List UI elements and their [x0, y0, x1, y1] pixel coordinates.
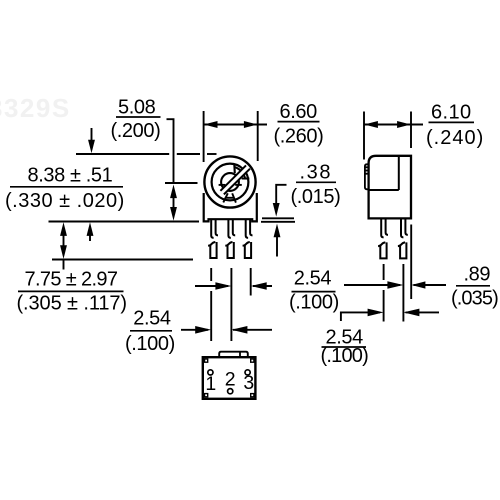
front view: top reference dash [207, 153, 217, 155]
wire/pin upper-left edge [228, 220, 230, 238]
standoff upper line (body bottom ext) [262, 217, 294, 219]
pin break slant [243, 242, 250, 246]
wire/pin upper-left edge [381, 220, 383, 238]
ext line pin3 center (front) [250, 268, 252, 296]
5.08 dim: center-height tick line [165, 182, 198, 184]
ext line side pin1 center lower [383, 290, 385, 322]
svg-text:(.200): (.200) [111, 120, 161, 142]
front view: rotor tick right [235, 184, 242, 186]
front view: slot line 2 [224, 169, 250, 195]
front view: trimmer body outline with feet [204, 193, 257, 221]
pin break slant [208, 242, 215, 246]
dim 7.75: shaft stub below pin-tip line [63, 260, 65, 270]
side view: adjuster tab [365, 164, 369, 189]
dim .38: up arrow below seating [276, 234, 278, 257]
dim 6.10: left extension line [363, 112, 365, 160]
pin lower segment [400, 242, 406, 258]
side view: inner horizontal line [370, 189, 399, 191]
wire/pin upper-left edge [246, 220, 248, 238]
dim 8.38: up arrow at seating line [89, 233, 91, 241]
side view: body outline (rounded top-left) [369, 156, 411, 219]
front view: wedge radial top [233, 164, 236, 173]
dim 6.60: right extension line [257, 111, 259, 161]
front view: reference line top of body (left segment) [76, 153, 169, 155]
bottom view: body rectangle [203, 357, 256, 399]
wire/pin upper-right edge [233, 220, 235, 235]
ext line pin1 center (front) lower [210, 291, 212, 341]
pin lower segment [210, 242, 216, 258]
bottom view: hole pin 1 [208, 370, 213, 375]
svg-text:(.330 ± .020): (.330 ± .020) [5, 190, 125, 212]
svg-text:8.38 ± .51: 8.38 ± .51 [28, 165, 113, 187]
svg-text:5.08: 5.08 [118, 97, 156, 119]
svg-text:(.035): (.035) [451, 287, 498, 309]
front view: pointer left leg [223, 193, 228, 202]
svg-text:.89: .89 [464, 264, 491, 286]
front view: wedge arc [234, 167, 245, 179]
svg-text:6.60: 6.60 [280, 101, 318, 123]
pin lower segment [245, 242, 251, 258]
wire/pin upper-right edge [386, 220, 388, 235]
side view: inner vertical line [398, 156, 400, 190]
bottom view: corner square BL [205, 394, 208, 397]
wire/pin upper-left edge [401, 220, 403, 238]
front view: slot channel white gap [223, 167, 249, 192]
ext line pin1 center (front) upper [210, 268, 212, 281]
bottom view: top tab [219, 352, 248, 357]
front view: wedge radial right [242, 177, 250, 179]
svg-text:3: 3 [243, 372, 254, 394]
svg-text:(.305 ± .117): (.305 ± .117) [17, 292, 127, 314]
front view: reference line top of body (right segment) [177, 153, 200, 155]
dim 8.38: down arrow at top line [91, 128, 93, 144]
pin break slant [378, 242, 385, 246]
wire/pin upper-right edge [250, 220, 252, 235]
ext line side pin1 center upper [383, 264, 385, 280]
bottom view: hole pin 2 [228, 389, 233, 394]
wire/pin upper-left edge [211, 220, 213, 238]
wire/pin upper-right edge [405, 220, 407, 235]
dim 7.75: double arrow between seating and pin tips [63, 228, 65, 252]
svg-text:3329S: 3329S [0, 93, 71, 123]
svg-text:(.260): (.260) [274, 126, 324, 148]
dim .89: right arrow+tail [414, 284, 447, 286]
dim 5.08: double arrow center-to-seating [173, 192, 175, 212]
svg-text:7.75 ± 2.97: 7.75 ± 2.97 [25, 269, 118, 291]
front view: slot line 1 [220, 165, 246, 190]
front view: pointer right leg [232, 193, 236, 202]
dim .89: left tail+arrow [344, 284, 400, 286]
front view: rotor tick left [219, 184, 226, 186]
pin lower segment [380, 242, 386, 258]
bottom view: corner square BR [251, 394, 254, 397]
dim 2.54 side: right arrow+tail [406, 311, 440, 313]
front view: outer circle [204, 156, 255, 207]
dim 2.54 front lower: left tail+arrow [181, 329, 208, 331]
svg-text:(.100): (.100) [125, 333, 175, 355]
svg-text:2.54: 2.54 [294, 268, 332, 290]
dim 6.60: dimension line with arrows [204, 124, 267, 126]
front view: inner ring circle [212, 164, 249, 201]
dim 2.54 front upper: right arrow+tail [253, 285, 272, 287]
ext line side body right [410, 225, 412, 300]
svg-text:6.10: 6.10 [431, 102, 472, 124]
dim 6.10: right extension line [410, 112, 412, 149]
svg-text:(.100): (.100) [321, 345, 369, 367]
svg-text:(.100): (.100) [289, 292, 339, 314]
svg-text:2.54: 2.54 [133, 307, 171, 329]
dim 6.10: dimension line with arrows [364, 124, 423, 126]
bottom view: corner square TL [205, 359, 208, 362]
svg-text:(.015): (.015) [291, 186, 341, 208]
svg-text:1: 1 [205, 373, 216, 395]
front view: pointer crossbar [225, 197, 235, 199]
side view: tab slot marks [365, 166, 369, 168]
svg-text:(.240): (.240) [426, 127, 484, 149]
front view: seating plane line left [49, 221, 200, 223]
pin lower segment [228, 242, 234, 258]
wire/pin upper-right edge [216, 220, 218, 235]
bottom view: tab divider [239, 352, 241, 357]
pin break slant [225, 242, 232, 246]
dim 5.08: bracket leader [167, 119, 174, 183]
pin break slant [398, 242, 405, 246]
front view: rotor circle [221, 173, 239, 191]
svg-text:.38: .38 [300, 162, 333, 184]
dim 2.54 front upper: left tail+arrow [195, 285, 228, 287]
bottom view: corner square TR [251, 359, 254, 362]
dim 2.54 side: elbow leader + arrow [341, 312, 380, 321]
ext line pin2 center (front) [230, 268, 232, 341]
dim .38: bracket leader and down arrow [276, 185, 286, 204]
dim 6.60: left extension line [203, 111, 205, 162]
standoff lower line (seating ext) [261, 221, 295, 223]
svg-text:2: 2 [225, 369, 236, 391]
ext line side pin2 center [402, 264, 404, 322]
dim 2.54 front lower: right arrow+tail [233, 329, 272, 331]
bottom view: hole pin 3 [245, 370, 250, 375]
front view: pin-tip reference line [52, 259, 193, 261]
